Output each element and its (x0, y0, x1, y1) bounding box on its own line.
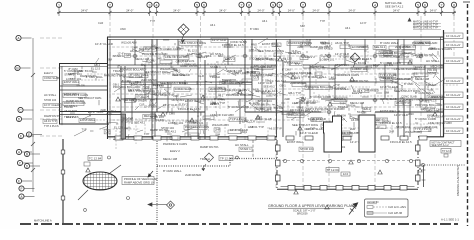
svg-text:24'-0": 24'-0" (393, 8, 400, 12)
svg-text:TC 12.84: TC 12.84 (89, 156, 102, 160)
svg-text:TYP: TYP (335, 83, 340, 87)
svg-text:2HR: 2HR (132, 46, 137, 50)
svg-text:FIN FLR EL 12.5: FIN FLR EL 12.5 (178, 107, 200, 111)
svg-text:2HR: 2HR (264, 109, 269, 113)
sheet ref text bottom right (441, 218, 459, 222)
svg-text:2HR RATED: 2HR RATED (364, 89, 379, 93)
svg-text:5% DN: 5% DN (428, 68, 436, 72)
porch right return wall (422, 165, 426, 187)
svg-text:EL 12.5: EL 12.5 (249, 101, 258, 105)
svg-text:CLR: CLR (306, 39, 311, 43)
dashed vertical wall-to-boundary connector (252, 140, 254, 158)
keynote diamond left (95, 157, 97, 159)
interior horizontal wall y65 (107, 65, 443, 68)
left grid bubble L6 (26, 132, 42, 137)
svg-text:ELEV 2: ELEV 2 (179, 102, 189, 106)
svg-text:24'-0": 24'-0" (257, 8, 264, 12)
left grid bubble L11 (16, 178, 32, 183)
svg-text:MECH 108: MECH 108 (144, 114, 158, 118)
svg-text:CLR: CLR (139, 102, 144, 106)
svg-text:EL 12.5: EL 12.5 (247, 70, 256, 74)
dotted line right of porch (420, 164, 466, 166)
parking porch outline (277, 140, 418, 190)
interior horizontal wall y82 (121, 82, 398, 85)
svg-text:8" CMU: 8" CMU (166, 112, 175, 116)
stair core right redraw (359, 115, 375, 152)
svg-text:UNO: UNO (120, 27, 126, 31)
left grid bubble L12 (19, 186, 35, 191)
left grid bubble L13 (19, 194, 35, 199)
svg-text:A6.01 TYP: A6.01 TYP (64, 109, 77, 113)
svg-text:12'-0" CLR: 12'-0" CLR (212, 38, 226, 42)
svg-text:2HR RATED: 2HR RATED (141, 78, 157, 82)
keynote diamond mid-right (351, 53, 360, 67)
svg-text:SEE STRUCT DWG: SEE STRUCT DWG (78, 96, 101, 100)
svg-text:8: 8 (453, 3, 455, 7)
porch interior circles (283, 159, 412, 162)
grid bubble T2 (107, 2, 112, 16)
svg-text:HC STALL: HC STALL (172, 98, 185, 102)
svg-text:10'-6" CLEAR: 10'-6" CLEAR (300, 131, 318, 135)
interior vertical wall D (277, 39, 284, 137)
left grid bubble L7 (16, 149, 32, 154)
right margin label boxes (444, 33, 463, 134)
west margin stacked labels (43, 71, 61, 128)
svg-text:1F CLG+9': 1F CLG+9' (446, 79, 461, 83)
svg-text:STAIR 1: STAIR 1 (240, 147, 251, 151)
svg-text:24'-0": 24'-0" (312, 8, 319, 12)
annotation labels cluster (63, 38, 452, 177)
svg-text:SIM: SIM (300, 24, 305, 28)
grid bubble T7 (239, 2, 244, 16)
driveway arrow symbol (148, 201, 175, 209)
svg-text:A-1.1 SEE 1-1: A-1.1 SEE 1-1 (441, 218, 459, 222)
svg-text:CONC SLAB: CONC SLAB (401, 94, 417, 98)
svg-text:SEE A9.2: SEE A9.2 (134, 121, 146, 125)
svg-text:8" CMU: 8" CMU (250, 27, 259, 31)
svg-text:10'-6" CLEAR: 10'-6" CLEAR (44, 103, 60, 107)
svg-text:SEE STRUCT DWG: SEE STRUCT DWG (180, 41, 207, 45)
svg-text:F: F (28, 133, 30, 137)
column marker symbols (133, 54, 424, 115)
svg-text:24'-0": 24'-0" (430, 8, 437, 12)
svg-text:2HR: 2HR (125, 53, 130, 57)
stair core left redraw (324, 116, 342, 152)
planting label box (122, 177, 157, 185)
labels above top edge (98, 19, 367, 31)
left grid bubble L9 (17, 160, 33, 165)
svg-text:STOR 104: STOR 104 (396, 125, 410, 129)
grid bubble T5 (194, 2, 199, 16)
porch bottom column marks (288, 186, 407, 191)
svg-text:W12x26 ABV: W12x26 ABV (405, 130, 422, 134)
svg-text:2HR: 2HR (144, 86, 149, 90)
courtyard left edge ticks (61, 150, 65, 200)
svg-text:PARKING 9 CARS: PARKING 9 CARS (163, 142, 187, 146)
svg-text:SIM: SIM (107, 58, 113, 62)
building main block right wall (441, 30, 444, 137)
svg-text:GB-1: GB-1 (94, 63, 101, 67)
svg-text:STOR 104: STOR 104 (44, 98, 57, 102)
svg-text:12'-6": 12'-6" (248, 125, 255, 129)
left grid leader vertical line (31, 38, 35, 192)
stair core left (324, 116, 342, 152)
svg-text:2HR RATED: 2HR RATED (185, 173, 201, 177)
svg-text:9: 9 (272, 3, 274, 7)
svg-text:2HR: 2HR (431, 47, 436, 51)
long dashed horizontal lines (112, 47, 440, 128)
grid bubble T4 (154, 2, 159, 16)
svg-text:STOR 104: STOR 104 (136, 94, 149, 98)
svg-text:A6.1: A6.1 (295, 76, 301, 80)
svg-text:SEE STRUCT DWG: SEE STRUCT DWG (258, 49, 285, 53)
svg-text:A6.01 TYP: A6.01 TYP (269, 127, 282, 131)
svg-text:A6.1: A6.1 (242, 130, 248, 134)
svg-text:STAIR 1: STAIR 1 (210, 65, 221, 69)
courtyard bent arrow (148, 171, 153, 177)
svg-text:UNO: UNO (274, 44, 280, 48)
svg-text:GB-1: GB-1 (265, 78, 272, 82)
grid bubble T14 (415, 2, 420, 16)
svg-text:8" CMU: 8" CMU (146, 58, 155, 62)
svg-text:A6.1: A6.1 (412, 71, 418, 75)
svg-text:FIN FLR EL 12.5: FIN FLR EL 12.5 (390, 140, 412, 144)
svg-text:CLR: CLR (292, 49, 297, 53)
svg-text:RAMP DN 5%: RAMP DN 5% (200, 145, 219, 149)
box right of porch (430, 141, 461, 158)
svg-text:1F CLG+9': 1F CLG+9' (446, 34, 461, 38)
svg-text:1: 1 (58, 3, 60, 7)
svg-text:EXIST WALL: EXIST WALL (64, 80, 80, 84)
svg-text:8" CMU WALL: 8" CMU WALL (163, 169, 182, 173)
svg-text:8: 8 (248, 3, 250, 7)
svg-text:24'-0": 24'-0" (219, 8, 226, 12)
svg-text:ELEV 2: ELEV 2 (305, 55, 315, 59)
svg-text:F: F (20, 187, 22, 191)
svg-text:TP 12.84: TP 12.84 (220, 156, 232, 160)
bottom wall column rects (115, 136, 427, 140)
svg-text:MATCHLINE A: MATCHLINE A (34, 219, 52, 223)
left grid bubble L5 (18, 133, 34, 138)
svg-text:12.0: 12.0 (343, 172, 349, 176)
svg-text:12'-6": 12'-6" (360, 21, 367, 25)
property line dash-dot (20, 223, 461, 225)
left grid bubble L10 (24, 163, 40, 168)
svg-text:24'-0": 24'-0" (126, 8, 133, 12)
svg-text:5% DN: 5% DN (357, 110, 365, 114)
svg-text:A6.01 TYP: A6.01 TYP (44, 119, 57, 123)
svg-text:A6.1: A6.1 (345, 26, 351, 30)
svg-text:HC STALL: HC STALL (44, 93, 57, 97)
grid bubble T11 (300, 2, 305, 16)
left grid bubble L2 (15, 65, 31, 70)
svg-text:24'-0": 24'-0" (348, 8, 355, 12)
svg-text:8" CMU: 8" CMU (282, 67, 291, 71)
svg-text:5" CONC CURB: 5" CONC CURB (310, 95, 331, 99)
svg-text:2HR: 2HR (389, 130, 394, 134)
interior vertical wall E (398, 39, 404, 137)
grid bubble T10 (277, 2, 282, 16)
svg-text:8" CMU: 8" CMU (179, 81, 188, 85)
svg-text:FIN FLR EL 12.5: FIN FLR EL 12.5 (141, 90, 162, 94)
grid bubble T13 (372, 2, 377, 16)
svg-text:3: 3 (328, 3, 330, 7)
legend box (365, 199, 409, 217)
svg-text:MECH 108: MECH 108 (163, 157, 178, 161)
svg-text:24'-0": 24'-0" (288, 8, 295, 12)
svg-text:4: 4 (156, 3, 158, 7)
grid bubble T15 (422, 2, 427, 16)
svg-text:LOBBY 101: LOBBY 101 (168, 121, 184, 125)
svg-text:4: 4 (374, 3, 376, 7)
left grid bubble L1 (16, 35, 32, 40)
svg-text:BRG2009: BRG2009 (297, 212, 308, 215)
svg-text:SEE SHT A1.2: SEE SHT A1.2 (385, 5, 404, 9)
svg-text:TRASH: TRASH (200, 157, 210, 161)
svg-text:EXIST WALL: EXIST WALL (287, 140, 304, 144)
svg-text:A6.1: A6.1 (301, 96, 307, 100)
svg-text:PROVIDE BOLLARD: PROVIDE BOLLARD (120, 67, 145, 71)
hatched wall pier left (121, 114, 126, 139)
interior horizontal wall y99 (121, 98, 443, 100)
svg-text:CLR: CLR (254, 67, 259, 71)
svg-text:LOBBY 101: LOBBY 101 (189, 121, 204, 125)
interior vertical wall stubs (132, 39, 425, 137)
svg-text:1F CLG+9': 1F CLG+9' (446, 129, 461, 133)
svg-text:GB-1 TYP: GB-1 TYP (288, 91, 301, 95)
svg-text:12'-0" CLR: 12'-0" CLR (422, 106, 435, 110)
svg-text:ELEV 2: ELEV 2 (170, 149, 180, 153)
extra annotation labels cluster (64, 40, 445, 135)
svg-text:2: 2 (109, 3, 111, 7)
grid bubble T1 (56, 2, 61, 16)
annotation fill pass cluster (111, 39, 437, 140)
svg-text:EL 12.5: EL 12.5 (188, 49, 198, 53)
svg-text:MECH 108: MECH 108 (431, 95, 445, 99)
svg-text:12'-0" CLR: 12'-0" CLR (163, 103, 177, 107)
svg-text:GB-1: GB-1 (135, 80, 142, 84)
svg-text:CLR: CLR (304, 127, 309, 131)
svg-text:CLR: CLR (98, 21, 103, 25)
svg-text:12'-6": 12'-6" (373, 63, 380, 67)
courtyard small circles (84, 156, 239, 211)
svg-text:SEE A9.2: SEE A9.2 (321, 42, 333, 46)
svg-text:HC STALL: HC STALL (426, 59, 440, 63)
svg-text:GB-1 TYP: GB-1 TYP (128, 88, 140, 92)
drawing title (268, 204, 354, 215)
svg-text:3: 3 (149, 3, 151, 7)
svg-text:A6.1: A6.1 (424, 99, 430, 103)
svg-text:MATCH LINE A2 TYP: MATCH LINE A2 TYP (413, 26, 438, 30)
matchline text bottom left (34, 219, 52, 223)
svg-text:A6.01 TYP: A6.01 TYP (335, 41, 349, 45)
svg-text:MECH 108: MECH 108 (431, 64, 445, 68)
svg-text:2HR: 2HR (306, 71, 311, 75)
svg-text:1F CLG+9': 1F CLG+9' (446, 59, 461, 63)
dashed leader lines cluster (81, 46, 458, 150)
dashed horizontal grid lines (40, 38, 62, 136)
dashed line through porch (277, 160, 418, 162)
svg-text:A6.1: A6.1 (210, 23, 216, 27)
building main block left wall (108, 37, 111, 139)
svg-text:STOR 104: STOR 104 (161, 126, 174, 130)
left grid bubble L3 (18, 107, 34, 112)
svg-text:A6.1: A6.1 (111, 109, 117, 113)
svg-text:RAMP DN 5%: RAMP DN 5% (44, 114, 61, 118)
leader lines cluster (69, 38, 445, 141)
revision triangles cluster (86, 57, 437, 209)
svg-text:STOR 104: STOR 104 (258, 99, 272, 103)
svg-text:2HR: 2HR (284, 97, 289, 101)
svg-text:TYP: TYP (320, 19, 325, 23)
svg-text:SEE A9.2: SEE A9.2 (381, 76, 393, 80)
svg-text:2HR: 2HR (399, 99, 404, 103)
svg-text:A6.1: A6.1 (262, 19, 268, 23)
svg-text:LOBBY 101: LOBBY 101 (320, 58, 335, 62)
courtyard diamond symbol (202, 153, 214, 171)
svg-text:LINE OF FLR ABV: LINE OF FLR ABV (225, 88, 247, 92)
svg-text:CLR 12P-3B: CLR 12P-3B (388, 212, 402, 215)
svg-text:RAMP ABOVE GRID LN: RAMP ABOVE GRID LN (124, 181, 154, 185)
svg-text:GB-1: GB-1 (297, 105, 304, 109)
top right note stack (408, 18, 442, 30)
courtyard TC box (84, 156, 102, 167)
svg-text:2HR RATED: 2HR RATED (318, 47, 333, 51)
left grid bubble L8 (24, 151, 40, 156)
svg-text:1F CLG+9': 1F CLG+9' (446, 93, 461, 97)
courtyard dotted boundary horizontal (157, 159, 277, 167)
svg-text:10'-6" CLEAR: 10'-6" CLEAR (95, 42, 113, 46)
svg-text:7: 7 (441, 3, 443, 7)
svg-text:SIM: SIM (215, 132, 220, 136)
svg-text:GROUND FLOOR & UPPER LEVEL PAR: GROUND FLOOR & UPPER LEVEL PARKING PLAN (268, 204, 354, 208)
svg-text:ELEV 2: ELEV 2 (44, 71, 53, 75)
stair core right (359, 115, 375, 152)
svg-text:EL 12.5: EL 12.5 (353, 89, 363, 93)
svg-text:TP 12.04: TP 12.04 (326, 168, 338, 172)
courtyard left edge (62, 139, 64, 223)
svg-text:EL 12.5: EL 12.5 (312, 117, 321, 121)
left grid bubble L4 (16, 116, 32, 121)
svg-text:2: 2 (302, 3, 304, 7)
svg-text:12'-6": 12'-6" (117, 52, 124, 56)
svg-text:SEE A9.2: SEE A9.2 (376, 118, 388, 122)
svg-text:EXIST WALL: EXIST WALL (64, 92, 80, 96)
interior vertical wall C (245, 39, 252, 112)
grid bubble T12 (326, 2, 331, 16)
svg-text:GB-1: GB-1 (255, 58, 262, 62)
svg-text:SEE A9.2: SEE A9.2 (165, 130, 177, 134)
svg-text:TYP: TYP (294, 62, 299, 66)
svg-text:TYP: TYP (150, 19, 155, 23)
grid bubble T8 (246, 2, 251, 16)
svg-text:6: 6 (424, 3, 426, 7)
svg-text:TP 12.6: TP 12.6 (442, 149, 452, 153)
svg-text:2HR: 2HR (350, 127, 355, 131)
grid bubble T16 (439, 2, 444, 16)
grid bubble T3 (147, 2, 152, 16)
svg-text:24'-0": 24'-0" (81, 8, 88, 12)
svg-text:5" CONC CURB: 5" CONC CURB (64, 69, 83, 73)
svg-text:GB-1: GB-1 (280, 84, 287, 88)
svg-text:STOR 104: STOR 104 (300, 147, 314, 151)
svg-text:LEGEND: LEGEND (367, 200, 379, 204)
top dimension texts (81, 8, 437, 12)
courtyard TP box right (219, 156, 233, 161)
porch side column marks (276, 145, 421, 181)
svg-text:PROVIDE BOLLARD: PROVIDE BOLLARD (412, 41, 437, 45)
svg-text:2HR: 2HR (150, 97, 155, 101)
svg-text:PARKING PLAN NOTES: PARKING PLAN NOTES (456, 165, 460, 196)
top small texts above dim line right (385, 1, 404, 9)
grid bubble T9 (270, 2, 275, 16)
west wing interior walls (59, 86, 121, 115)
keynote diamond top (178, 24, 189, 42)
svg-text:TYP: TYP (310, 126, 315, 130)
svg-text:UNO: UNO (210, 100, 216, 104)
svg-text:W12x26 ABV: W12x26 ABV (212, 123, 229, 127)
svg-text:EL 12.5: EL 12.5 (283, 56, 292, 60)
svg-text:24'-0": 24'-0" (173, 8, 180, 12)
svg-text:TYP 4 PLCS: TYP 4 PLCS (64, 115, 79, 119)
north arrow (349, 203, 358, 215)
svg-text:SEE A9.2: SEE A9.2 (374, 45, 386, 49)
building bottom wall (107, 137, 444, 139)
svg-text:UNO: UNO (408, 112, 414, 116)
interior vertical wall F (121, 66, 125, 114)
svg-text:12'-0" CLR: 12'-0" CLR (424, 125, 437, 129)
svg-text:UNO: UNO (251, 42, 257, 46)
svg-text:UNO: UNO (329, 77, 335, 81)
svg-text:5: 5 (417, 3, 419, 7)
svg-text:ELEV 2: ELEV 2 (415, 65, 425, 69)
svg-text:SEE SHT A-1.2: SEE SHT A-1.2 (432, 144, 450, 147)
svg-text:CLR: CLR (105, 129, 110, 133)
svg-text:6: 6 (203, 3, 205, 7)
grid bubble T17 (451, 2, 456, 16)
circle on dotted line right of porch (421, 163, 424, 166)
top dimension line (57, 12, 456, 14)
svg-text:1F CLG+9': 1F CLG+9' (446, 105, 461, 109)
svg-text:TYP 4 PLCS: TYP 4 PLCS (44, 124, 59, 128)
svg-text:CLR 12-9 +VES: CLR 12-9 +VES (388, 206, 406, 209)
svg-text:PARKING 9 CARS: PARKING 9 CARS (64, 101, 86, 105)
svg-text:PROVIDE BOLLARD: PROVIDE BOLLARD (142, 52, 167, 56)
svg-text:GB-1: GB-1 (113, 82, 120, 86)
svg-text:2HR: 2HR (215, 127, 220, 131)
svg-text:LOBBY 101: LOBBY 101 (183, 63, 198, 67)
porch label TP (326, 168, 350, 177)
svg-text:2HR: 2HR (297, 45, 302, 49)
dashed vertical grid lines (110, 16, 454, 190)
svg-text:2HR: 2HR (387, 61, 392, 65)
short tick strokes cluster (62, 40, 440, 141)
svg-text:EL 12.5: EL 12.5 (91, 66, 101, 70)
interior vertical wall B (198, 39, 205, 139)
svg-text:7: 7 (241, 3, 243, 7)
west wing interior labels (63, 69, 101, 123)
courtyard dotted boundary vertical (156, 141, 158, 222)
building main block top wall (107, 37, 444, 39)
sheet border right edge (463, 2, 470, 226)
svg-text:SEE A9.2: SEE A9.2 (139, 47, 151, 51)
svg-text:8" CMU: 8" CMU (340, 54, 349, 58)
svg-text:SEE A9.2: SEE A9.2 (275, 79, 287, 83)
interior vertical wall A (152, 39, 157, 139)
svg-text:CLR: CLR (198, 74, 203, 78)
svg-text:SEE A9.2: SEE A9.2 (263, 84, 275, 88)
rotated text right margin (456, 165, 460, 196)
